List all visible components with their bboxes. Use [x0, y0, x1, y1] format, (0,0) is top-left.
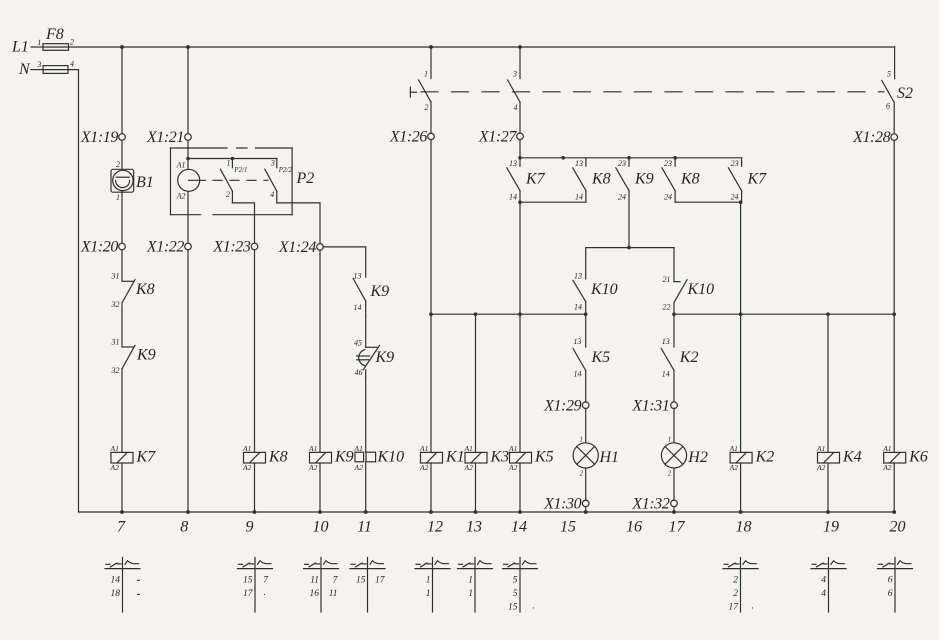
svg-text:X1:19: X1:19: [80, 129, 119, 146]
node L1-col12 junction: [429, 45, 433, 49]
svg-text:1: 1: [580, 436, 584, 444]
lamp H1: [573, 443, 598, 468]
svg-text:11: 11: [310, 575, 319, 585]
wire K9 contact to K7 coil: [121, 378, 123, 452]
pin labels P2/2: [270, 159, 275, 200]
svg-text:K8: K8: [135, 281, 155, 298]
terminal X1:24: [317, 244, 324, 251]
device box P2 (dashed enclosure): [171, 148, 293, 215]
svg-text:K9: K9: [334, 449, 354, 466]
contact K7 23/24 NO: [728, 158, 741, 202]
svg-text:13: 13: [354, 272, 362, 281]
cross-ref table K6 (col 20): [878, 558, 913, 613]
wire T junction horizontal: [586, 247, 674, 249]
node L1-col8 junction: [186, 45, 190, 49]
node left rail col15: [584, 312, 588, 316]
svg-text:13: 13: [574, 272, 582, 281]
contact K7 13/14 NO: [507, 158, 520, 202]
pin labels N fuse: [36, 60, 74, 70]
node P2 bus left: [186, 157, 190, 161]
pin labels coil K8: [242, 444, 252, 472]
svg-text:14: 14: [575, 193, 583, 202]
cross-ref table K7 (col 7): [105, 558, 140, 613]
svg-text:P2: P2: [296, 170, 315, 187]
svg-text:1: 1: [227, 159, 231, 168]
svg-text:K10: K10: [687, 281, 715, 298]
svg-text:2: 2: [668, 470, 672, 478]
svg-text:A1: A1: [354, 444, 363, 453]
wire to K9 45/46: [365, 316, 367, 347]
svg-text:K5: K5: [591, 349, 611, 366]
wire K10 coil to N rail: [365, 462, 367, 512]
pin labels K8 13/14: [575, 159, 583, 202]
table numbers K2: [729, 575, 740, 612]
node T junction: [627, 246, 631, 250]
svg-text:K9: K9: [634, 171, 654, 188]
table numbers K3: [468, 575, 473, 599]
svg-text:K7: K7: [525, 171, 546, 188]
svg-text:A2: A2: [419, 463, 429, 472]
svg-text:1: 1: [468, 589, 473, 599]
pin labels P2/1: [226, 159, 231, 200]
wire X1:23 to K8 coil: [254, 250, 256, 453]
coil K1: [421, 452, 443, 463]
svg-text:1: 1: [426, 575, 431, 585]
svg-text:A2: A2: [508, 463, 518, 472]
table numbers K1: [426, 575, 431, 599]
svg-text:31: 31: [111, 338, 120, 347]
wire K8 coil to N rail: [254, 463, 256, 512]
svg-text:2: 2: [733, 589, 738, 599]
wire K9 24 down to T junction: [628, 191, 630, 248]
pin labels K10 13/14: [574, 272, 582, 312]
svg-text:6: 6: [888, 575, 893, 585]
terminal X1:28: [891, 134, 898, 141]
svg-text:18: 18: [111, 589, 121, 599]
node left rail col13: [474, 312, 478, 316]
node N-col7: [120, 510, 124, 514]
svg-text:2: 2: [580, 470, 584, 478]
wire col20 X1:28 to right rail: [893, 140, 895, 314]
svg-text:22: 22: [663, 303, 671, 312]
svg-text:15: 15: [356, 575, 366, 585]
node right rail col20: [892, 312, 896, 316]
pin labels K9 13/14 col11: [354, 272, 362, 313]
svg-text:14: 14: [354, 303, 362, 312]
terminal X1:26: [428, 133, 435, 140]
cross-ref table K2 (col 18): [723, 558, 758, 613]
coil K6: [884, 452, 906, 463]
wire col14 rail to K5 coil: [519, 314, 521, 452]
svg-text:23: 23: [664, 159, 672, 168]
wire T right down: [673, 248, 675, 282]
svg-text:X1:30: X1:30: [543, 496, 582, 513]
wire K9 45/46 to K10 coil: [365, 377, 367, 452]
terminal X1:21: [185, 134, 192, 141]
wire X1:29 to H1: [585, 408, 587, 442]
pin labels K7b 23/24: [731, 159, 739, 202]
svg-text:K2: K2: [679, 349, 699, 366]
pin labels coil K2: [729, 444, 739, 472]
pin labels K8 31/32: [111, 272, 120, 310]
wire X1:32 to N rail: [673, 507, 675, 513]
svg-text:17: 17: [375, 575, 386, 585]
node N-col12: [429, 510, 433, 514]
wire col14 down through left rail: [519, 202, 521, 314]
svg-text:A1: A1: [508, 444, 517, 453]
svg-text:24: 24: [618, 193, 626, 202]
svg-text:14: 14: [509, 193, 517, 202]
node N-col10: [318, 510, 322, 514]
coil K2: [730, 452, 752, 463]
svg-text:19: 19: [823, 519, 839, 536]
pin labels coil K5: [508, 444, 518, 472]
coil K10 (two squares): [355, 452, 376, 462]
svg-text:F8: F8: [45, 26, 64, 43]
node left rail col14: [518, 312, 522, 316]
wire N lead: [31, 69, 43, 71]
wire K3 coil to N rail: [475, 463, 477, 512]
coil K5: [510, 452, 532, 463]
wire X1:30 to N rail: [585, 507, 587, 513]
svg-text:K5: K5: [534, 449, 554, 466]
wire X1:24 branch to col11: [323, 247, 366, 277]
svg-text:X1:23: X1:23: [212, 239, 251, 256]
svg-text:.: .: [264, 588, 266, 598]
svg-text:4: 4: [821, 575, 826, 585]
svg-text:A1: A1: [729, 444, 738, 453]
svg-text:K8: K8: [591, 171, 611, 188]
lamp H2: [661, 443, 686, 468]
svg-text:X1:31: X1:31: [631, 397, 669, 414]
svg-text:K10: K10: [590, 281, 618, 298]
coil P2 A1/A2 (circle): [178, 169, 200, 191]
wire B1 to X1:20: [121, 192, 123, 244]
table numbers K8: [243, 575, 269, 599]
wire K7/K8 bottoms join: [520, 201, 586, 203]
terminal X1:31: [671, 402, 678, 409]
wire X1:24 to K9 coil: [319, 250, 321, 452]
linkage S2 dashed: [421, 91, 884, 93]
cross-ref table K3 (col 13): [458, 558, 493, 613]
svg-text:X1:29: X1:29: [543, 397, 582, 414]
svg-text:A1: A1: [176, 161, 186, 170]
wire H2 to X1:32: [673, 469, 675, 501]
coil K7: [111, 452, 133, 463]
svg-text:17: 17: [729, 603, 740, 613]
contact P2/1 (pins 1,2): [220, 159, 232, 203]
pin labels K7 13/14: [509, 159, 517, 202]
svg-text:3: 3: [36, 60, 41, 69]
svg-text:1: 1: [116, 193, 120, 202]
contact K8 13/14 NO: [573, 158, 586, 202]
switch S2 pole 3/4: [508, 47, 520, 133]
svg-text:2: 2: [425, 103, 429, 112]
pin labels H2: [668, 436, 672, 478]
pin labels coil K7: [110, 444, 120, 472]
svg-text:45: 45: [354, 338, 362, 347]
coil K3: [465, 452, 487, 463]
svg-text:A2: A2: [729, 463, 739, 472]
terminal X1:27: [517, 133, 524, 140]
svg-text:13: 13: [509, 159, 517, 168]
wire K8b/K7b bottoms join: [675, 201, 742, 203]
svg-text:2: 2: [70, 37, 74, 46]
svg-text:24: 24: [664, 193, 672, 202]
pin labels K9 31/32: [111, 338, 120, 376]
table ditto marks K7: [137, 580, 140, 594]
svg-text:3: 3: [512, 70, 517, 79]
svg-text:9: 9: [246, 519, 254, 536]
contact K2 13/14 NO: [661, 349, 674, 403]
svg-text:A2: A2: [464, 463, 474, 472]
svg-text:10: 10: [313, 519, 329, 536]
svg-text:5: 5: [513, 589, 518, 599]
svg-text:S2: S2: [897, 85, 913, 102]
svg-text:7: 7: [117, 519, 126, 536]
pin labels K9 23/24: [618, 159, 626, 202]
svg-text:K1: K1: [445, 449, 465, 466]
wire K2 coil to N rail: [740, 463, 742, 512]
switch S2 actuator bar: [410, 87, 416, 97]
svg-text:16: 16: [310, 589, 320, 599]
svg-text:15: 15: [560, 519, 576, 536]
svg-text:13: 13: [575, 159, 583, 168]
svg-text:12: 12: [427, 519, 443, 536]
node N-col9: [253, 510, 257, 514]
svg-text:A1: A1: [816, 444, 825, 453]
svg-text:1: 1: [37, 38, 41, 47]
node N-col8: [186, 510, 190, 514]
svg-text:X1:21: X1:21: [146, 129, 184, 146]
fuse F8 (pins 1,2): [43, 44, 69, 51]
svg-text:L1: L1: [11, 39, 29, 56]
svg-text:K9: K9: [375, 349, 395, 366]
svg-text:A2: A2: [176, 192, 186, 201]
contact K8 31/32 NC: [122, 280, 135, 311]
svg-text:24: 24: [731, 193, 739, 202]
wire K1 coil to N rail: [430, 463, 432, 512]
svg-text:1: 1: [424, 70, 428, 79]
wire col8 L1 to X1:21: [187, 47, 189, 134]
wire X1:21 into P2: [187, 140, 189, 169]
svg-text:32: 32: [111, 366, 120, 375]
svg-text:5: 5: [513, 575, 518, 585]
contact K10 13/14 NO: [573, 280, 586, 314]
coil K9: [310, 452, 332, 463]
wire L1 lead: [31, 46, 43, 48]
wire X1:22 to N rail: [187, 250, 189, 512]
cross-ref table K4 (col 19): [811, 558, 846, 613]
svg-text:.: .: [533, 602, 535, 612]
contact P2/2 (pins 3,4): [265, 159, 277, 203]
svg-text:13: 13: [466, 519, 482, 536]
pin labels coil K3: [464, 444, 474, 472]
svg-text:X1:32: X1:32: [631, 496, 670, 513]
node N-col13: [474, 510, 478, 514]
pin labels coil K6: [882, 444, 892, 472]
svg-text:32: 32: [111, 300, 120, 309]
coil K8: [244, 452, 266, 463]
wire K4 coil to N rail: [827, 463, 829, 512]
svg-text:15: 15: [243, 575, 253, 585]
svg-text:B1: B1: [136, 174, 154, 191]
svg-text:1: 1: [668, 436, 672, 444]
pin labels S2 pole 1/2: [424, 70, 429, 113]
svg-text:1: 1: [426, 589, 431, 599]
table numbers K9: [310, 575, 339, 599]
node right rail col17: [672, 312, 676, 316]
node K7 bottom: [518, 200, 522, 204]
svg-text:K2: K2: [755, 449, 775, 466]
wire col7 L1 to X1:19: [121, 47, 123, 134]
cross-ref table K5 (col 14): [503, 558, 538, 613]
pin labels B1: [116, 160, 120, 202]
svg-text:P2/1: P2/1: [233, 166, 247, 174]
svg-text:17: 17: [243, 589, 254, 599]
svg-text:K7: K7: [747, 171, 768, 188]
svg-text:P2/2: P2/2: [278, 166, 293, 174]
svg-text:A1: A1: [242, 444, 251, 453]
wire left rail: [431, 313, 586, 315]
node N-col14: [518, 510, 522, 514]
svg-text:4: 4: [70, 60, 74, 69]
svg-text:A2: A2: [110, 463, 120, 472]
node N-col19: [826, 510, 830, 514]
table numbers K5: [508, 575, 518, 612]
svg-text:23: 23: [731, 159, 739, 168]
wire contact bus: [520, 157, 742, 159]
svg-text:4: 4: [270, 190, 274, 199]
contact K9 23/24 NO: [616, 158, 629, 191]
wire X1:31 to H2: [673, 408, 675, 442]
svg-text:A2: A2: [308, 463, 318, 472]
svg-text:K4: K4: [842, 449, 862, 466]
svg-text:K8: K8: [680, 171, 700, 188]
svg-text:21: 21: [663, 275, 671, 284]
wire col19 rail to K4 coil: [827, 314, 829, 452]
svg-text:20: 20: [890, 519, 906, 536]
wire K6 coil to N rail: [893, 463, 895, 512]
node K7b bottom: [739, 200, 743, 204]
svg-text:6: 6: [886, 102, 890, 111]
svg-text:A1: A1: [419, 444, 428, 453]
wire K9 coil to N rail: [319, 463, 321, 512]
pin labels coil K9: [308, 444, 318, 472]
node right rail col19: [826, 312, 830, 316]
wire right rail: [674, 313, 894, 315]
wire P2 internal bus: [188, 158, 277, 160]
wire N bottom rail: [79, 511, 895, 513]
node bus mid: [561, 156, 565, 160]
terminal X1:19: [119, 134, 126, 141]
node L1-col14 junction: [518, 45, 522, 49]
node N-col17: [672, 510, 676, 514]
fuse N (pins 3,4): [43, 66, 68, 74]
wire col13 rail to K3 coil: [475, 314, 477, 452]
svg-text:14: 14: [111, 575, 121, 585]
wire H1 to X1:30: [585, 469, 587, 501]
pin labels coil K10: [354, 444, 364, 472]
node bus-K7: [518, 156, 522, 160]
pin labels S2 pole 5/6: [886, 70, 891, 111]
pin labels coil K1: [419, 444, 429, 472]
contact K9 31/32 NC: [122, 345, 135, 378]
svg-text:11: 11: [329, 589, 338, 599]
terminal X1:23: [251, 243, 258, 250]
svg-text:A1: A1: [308, 444, 317, 453]
svg-text:23: 23: [618, 159, 626, 168]
node N-col11: [364, 510, 368, 514]
pin labels K5 13/14: [574, 337, 582, 379]
pin labels K2 13/14: [662, 337, 670, 379]
wire col12 rail to K1 coil: [430, 314, 432, 452]
svg-text:A2: A2: [816, 463, 826, 472]
svg-text:A1: A1: [882, 444, 891, 453]
cross-ref table K1 (col 12): [415, 558, 450, 613]
svg-text:A1: A1: [464, 444, 473, 453]
wire col17 rail to K2 contact: [673, 314, 675, 347]
svg-text:17: 17: [669, 519, 686, 536]
terminal X1:32: [671, 500, 678, 507]
contact K9 45/46 delayed NC: [357, 346, 380, 378]
contact K8 23/24 NO: [662, 158, 675, 202]
node N-col20: [892, 510, 896, 514]
svg-text:K9: K9: [136, 347, 156, 364]
wire N to drop: [68, 70, 79, 512]
svg-text:K3: K3: [490, 449, 510, 466]
terminal X1:22: [185, 243, 192, 250]
svg-text:14: 14: [511, 519, 527, 536]
svg-text:8: 8: [180, 519, 188, 536]
contact K5 13/14 NO: [573, 349, 586, 403]
wire col20 rail to K6 coil: [893, 314, 895, 452]
svg-text:2: 2: [226, 190, 230, 199]
svg-text:14: 14: [574, 303, 582, 312]
wire K5 coil to N rail: [519, 463, 521, 512]
contact K9 13/14 NO: [353, 279, 366, 317]
svg-text:3: 3: [270, 159, 275, 168]
wire L1 rail: [69, 46, 895, 48]
pin labels K9 45/46: [354, 338, 363, 377]
svg-text:X1:24: X1:24: [278, 239, 317, 256]
svg-text:2: 2: [116, 160, 120, 169]
svg-text:4: 4: [821, 589, 826, 599]
svg-text:15: 15: [508, 603, 518, 613]
svg-text:.: .: [752, 602, 754, 612]
svg-text:A1: A1: [110, 444, 119, 453]
svg-text:X1:28: X1:28: [852, 129, 891, 146]
wire col18 from contacts to K2 coil: [740, 202, 742, 452]
node N-col15: [584, 510, 588, 514]
coil K4: [818, 452, 840, 463]
svg-text:16: 16: [626, 519, 642, 536]
wire K7 coil to N rail: [121, 463, 123, 512]
svg-text:31: 31: [111, 272, 120, 281]
table numbers K4: [821, 575, 826, 599]
svg-text:13: 13: [662, 337, 670, 346]
svg-text:13: 13: [574, 337, 582, 346]
terminal X1:30: [582, 500, 589, 507]
svg-text:K8: K8: [268, 449, 288, 466]
wire X1:26 down to left rail: [430, 140, 432, 315]
sensor B1: [111, 169, 134, 192]
wire X1:19 to B1: [121, 140, 123, 168]
svg-text:5: 5: [887, 70, 891, 79]
wire between K8 and K9 contacts: [121, 311, 123, 347]
wire T left down: [585, 248, 587, 279]
wire P2/1 pin2 to X1:23: [232, 203, 254, 244]
